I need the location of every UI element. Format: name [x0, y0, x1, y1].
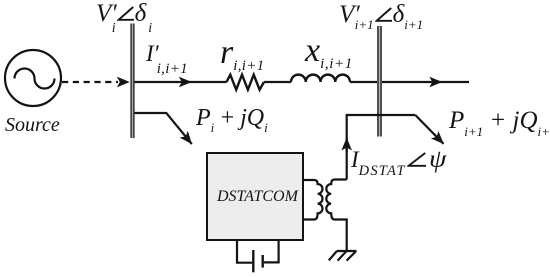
inductor x_i,i+1	[291, 75, 350, 82]
wire bus i+1 branch down to transformer	[347, 115, 416, 180]
wire	[192, 81, 227, 83]
label r_i,i+1	[220, 36, 264, 70]
wire	[442, 81, 469, 83]
wire bus i to resistor, with current arrow I'	[135, 81, 192, 83]
label P_i+1 + jQ_i+1	[449, 108, 550, 133]
label Source	[5, 115, 60, 135]
transformer primary winding	[304, 180, 323, 220]
DC-link capacitor right plate	[262, 255, 264, 268]
dashed wire source to bus i	[62, 81, 118, 83]
wire inductor through bus i+1, with arrow	[350, 81, 442, 83]
ground symbol	[329, 251, 357, 261]
label DSTATCOM	[217, 189, 298, 205]
DC-link wire right	[264, 241, 279, 263]
label I_DSTAT angle psi	[351, 147, 444, 172]
resistor r_i,i+1	[227, 75, 265, 90]
DSTATCOM box	[207, 153, 303, 240]
DC-link capacitor left plate	[252, 250, 254, 272]
current arrow I_DSTAT (up)	[346, 138, 348, 152]
AC source circle	[5, 50, 61, 106]
load arrow P_i+1 + jQ_i+1 from bus i+1	[415, 115, 443, 144]
bus i+1 (double bar)	[377, 26, 382, 137]
label P_i + jQ_i	[196, 106, 268, 130]
label V'_i+1 angle delta_i+1	[339, 2, 423, 27]
sine wave inside source	[15, 69, 55, 89]
wire resistor to inductor	[264, 81, 291, 83]
DC-link wire left	[237, 241, 252, 263]
bus i (double bar)	[130, 24, 134, 139]
label x_i,i+1	[305, 34, 353, 68]
label I'_i,i+1	[146, 42, 188, 65]
label V'_i angle delta_i	[96, 1, 152, 26]
transformer secondary winding	[326, 180, 346, 251]
load arrow P_i+jQ_i from bus i	[135, 113, 192, 144]
